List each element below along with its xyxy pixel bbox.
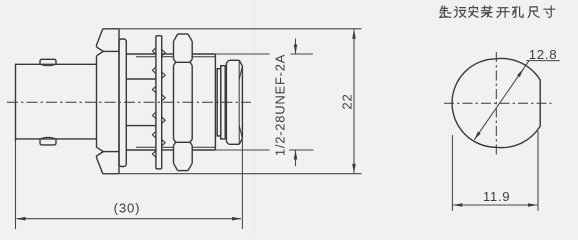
title char 7 chi <box>528 7 539 18</box>
hex facet lines <box>103 50 119 52</box>
title 建议安装开孔尺寸 (drawn strokes) <box>440 6 555 18</box>
title char 3 an <box>469 6 478 17</box>
arrowhead 12.8 upper <box>517 69 524 77</box>
dim (30) line <box>17 218 242 220</box>
thread lines in gap <box>126 53 156 55</box>
dim 22 extension lines <box>108 28 362 30</box>
title char 1 jian <box>440 6 451 18</box>
arrowhead 12.8 lower <box>474 132 481 140</box>
bayonet lug top <box>40 59 56 64</box>
diagonal dim 12.8 line + shelf <box>474 61 529 140</box>
hex notches <box>97 47 104 56</box>
nut notches + facet lines <box>174 59 176 65</box>
washer1 (gasket) <box>119 39 126 167</box>
title char 5 kai <box>497 8 509 18</box>
centerline left view <box>7 101 251 103</box>
centerlines <box>495 52 497 158</box>
bayonet lug bottom <box>40 139 56 145</box>
barrel (bayonet coupling) <box>16 63 97 65</box>
arrowheads (30) <box>16 217 26 221</box>
front hex body <box>103 28 119 30</box>
title char 6 kong <box>512 7 523 18</box>
svg-text:12.8: 12.8 <box>529 47 557 62</box>
washer teeth right <box>162 49 166 56</box>
dim 22 line <box>353 30 355 174</box>
svg-text:(30): (30) <box>114 201 141 216</box>
rear hex nut <box>178 33 188 35</box>
thread dim line segments <box>295 39 297 54</box>
retaining rings <box>217 69 221 136</box>
svg-text:22: 22 <box>340 93 355 109</box>
title char 2 yi <box>454 7 466 18</box>
11.9 ext lines <box>451 135 453 211</box>
title char 4 zhuang <box>481 6 492 17</box>
dim (30) extension lines <box>15 141 17 229</box>
shank lines in gap <box>126 78 156 80</box>
thread dim extension lines <box>215 53 269 55</box>
arrowheads 11.9 <box>453 203 463 207</box>
title char 8 cun <box>544 6 555 17</box>
arrowheads thread dim <box>294 45 298 55</box>
threaded bushing 1/2-28UNEF <box>192 53 215 55</box>
thread between washer and nut <box>162 53 174 55</box>
svg-text:11.9: 11.9 <box>483 189 511 204</box>
seam <box>254 0 256 236</box>
washer teeth left <box>152 48 165 158</box>
svg-text:1/2-28UNEF-2A: 1/2-28UNEF-2A <box>273 54 288 156</box>
rear small nut <box>229 59 239 61</box>
11.9 dim line <box>453 204 537 206</box>
serrated lock washer <box>155 36 157 169</box>
D-hole outline (circle with right flat) <box>452 58 540 147</box>
arrowheads 22 <box>352 29 356 39</box>
